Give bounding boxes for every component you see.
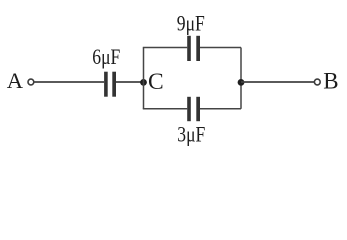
svg-text:6μF: 6μF [92, 44, 120, 69]
terminal A (open circle) [28, 79, 34, 85]
wire left edge of parallel loop [143, 48, 145, 109]
capacitor C1 6uF plates [104, 72, 108, 97]
wire top edge left segment [143, 47, 187, 49]
wire bottom edge right segment [200, 108, 241, 110]
terminal B (open circle) [314, 79, 320, 85]
wire capacitor 6uF to node C [116, 81, 144, 83]
capacitor C2 9uF plates [187, 36, 191, 61]
node C (junction dot) [140, 79, 147, 86]
wire right edge of parallel loop [240, 48, 242, 109]
wire bottom edge left segment [143, 108, 187, 110]
svg-text:A: A [7, 68, 24, 93]
svg-text:9μF: 9μF [177, 10, 205, 35]
wire right node to terminal B [241, 81, 314, 83]
svg-text:B: B [323, 68, 338, 93]
wire A to capacitor 6uF [34, 81, 104, 83]
svg-text:C: C [148, 69, 164, 95]
wire top edge right segment [200, 47, 241, 49]
junction dot right node [238, 79, 245, 86]
capacitor C3 3uF plates [187, 97, 191, 121]
svg-text:3μF: 3μF [177, 121, 205, 146]
